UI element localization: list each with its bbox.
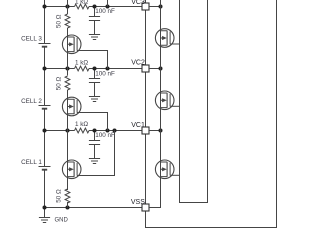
wire 50ohm to row VSS [67,202,69,208]
node junction: row VC1 / Q1 gate wire [113,129,117,133]
wire row VC1 left segment [45,130,75,132]
resistor 50 Ohm (CELL 2 balance) [65,76,70,90]
node junction: left bus / row VC1 [43,129,47,133]
wire pin VC2 to internal bus [149,68,161,70]
node junction: row VC2 / 100 nF [93,67,97,71]
resistor 50 Ohm (CELL 3 balance) [65,14,70,28]
svg-text:VC2: VC2 [131,59,145,66]
node junction: row VC1 / FET column [66,129,70,133]
wire between CELL 3 and CELL 2 [44,47,46,106]
node junction: row VC1 / 100 nF [93,129,97,133]
svg-text:GND: GND [55,218,69,224]
wire Q1 gate up to VC1 node [77,131,114,176]
transistor Q1 (CELL 1 external balance NFET) [62,160,81,179]
node junction: row VC2 / Q3 gate wire [106,67,110,71]
wire pin VC1 to internal bus [149,130,161,132]
wire Q3 gate to VC2 node [77,51,107,69]
wire row VC2 right segment to pin [89,68,142,70]
svg-text:100 nF: 100 nF [95,132,115,139]
battery CELL 2 symbol [39,106,51,109]
transistor Q2 (CELL 2 external balance NFET) [62,97,81,116]
pin VC3 of U1 [131,0,149,10]
wire Q2 gate to VC1 node [77,113,107,131]
wire internal FET2 gate to control block [170,105,179,107]
node junction: left bus / row VC3 [43,5,47,9]
wire pin VC3 to internal bus [149,6,161,8]
wire CELL 1 negative down to GND [44,170,46,218]
ground GND power symbol [39,218,50,223]
resistor 1 kOhm (VC2 filter) [75,66,90,71]
resistor 1 kOhm (VC3 filter) [75,4,90,9]
ground (VC1 cap return) [89,159,100,164]
inner control block of U1 [180,0,208,203]
node junction: row VC3 / gate wire from above [106,5,110,9]
node junction: row VC3 / 50 ohm column [66,5,70,9]
svg-text:1 kΩ: 1 kΩ [75,59,88,66]
svg-text:VC1: VC1 [131,122,145,129]
wire row VC1 right segment to pin [89,130,142,132]
wire gate of cell-4 FET (cut off) down to VC3 node [107,0,109,7]
svg-text:VSS: VSS [131,199,145,206]
wire 50ohm to Q3, Q3 source to row VC2 [67,28,69,76]
svg-text:50 Ω: 50 Ω [55,76,62,90]
node junction: internal bus / VC3 [159,5,163,9]
battery CELL 3 symbol [39,44,51,47]
wire pin VSS to internal bus corner [149,207,161,209]
svg-text:1 kΩ: 1 kΩ [75,121,88,128]
wire internal FET3 gate to control block [170,174,179,176]
node junction: left bus / row VC2 [43,67,47,71]
pin VSS of U1 [131,199,149,211]
wire left bus above CELL 3 [44,0,46,44]
ground (VC3 cap return) [89,35,100,40]
transistor Q3 (CELL 3 external balance NFET) [62,35,81,54]
node junction: left bus / row VSS [43,206,47,210]
resistor 1 kOhm (VC1 filter) [75,128,90,133]
pin VC2 of U1 [131,59,149,72]
svg-text:CELL 1: CELL 1 [21,159,42,166]
capacitor 100 nF (VC1 filter) [89,131,100,159]
wire row VC2 left segment [45,68,75,70]
wire row VC3 left segment [45,6,75,8]
svg-text:VC3: VC3 [131,0,145,6]
wire between CELL 2 and CELL 1 [44,109,46,167]
node junction: internal bus / VC1 [159,129,163,133]
capacitor 100 nF (VC3 filter) [89,7,100,35]
svg-text:50 Ω: 50 Ω [55,14,62,28]
transistor internal balance FET (VC2-VC1) [155,91,174,110]
battery CELL 1 symbol [39,167,51,170]
transistor internal balance FET (VC1-VSS) [155,160,174,179]
svg-text:CELL 3: CELL 3 [21,36,42,43]
wire row VSS [45,207,143,209]
wire source of cell-4 FET (cut off) down to row VC3 [67,0,69,14]
wire row VC1 down through Q1 [67,131,69,191]
resistor 50 Ohm (CELL 1 balance) [65,189,70,203]
node junction: row VC2 / FET column [66,67,70,71]
IC U1 outline (battery monitor, top edge cut off) [146,0,277,228]
node junction: internal bus / VC2 [159,67,163,71]
ground (VC2 cap return) [89,97,100,102]
node junction: row VC1 / Q2 gate wire [106,129,110,133]
transistor internal balance FET (VC3-VC2) [155,29,174,48]
wire row VC3 right segment to pin [89,6,142,8]
pin VC1 of U1 [131,122,149,134]
wire internal bus through balance FETs to VSS pin [149,0,161,208]
wire 50ohm to Q2, Q2 source to row VC1 [67,90,69,131]
capacitor 100 nF (VC2 filter) [89,69,100,97]
svg-text:CELL 2: CELL 2 [21,98,42,105]
svg-text:1 kΩ: 1 kΩ [75,0,88,5]
node junction: row VC3 / 100 nF [93,5,97,9]
node junction: row VSS / 50 ohm of Q1 [66,206,70,210]
svg-text:100 nF: 100 nF [95,8,115,15]
svg-text:100 nF: 100 nF [95,71,115,78]
svg-text:50 Ω: 50 Ω [55,189,62,203]
wire internal FET1 gate to control block [170,43,179,45]
